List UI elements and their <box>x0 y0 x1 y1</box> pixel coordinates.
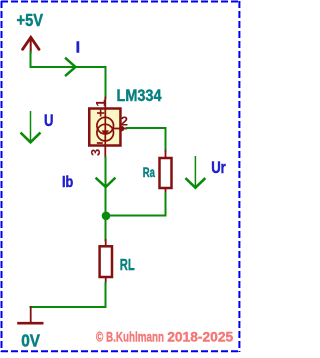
wire pin3 down through node to RL <box>105 158 107 241</box>
svg-text:0V: 0V <box>21 331 40 351</box>
+5V power symbol <box>23 37 39 52</box>
svg-text:LM334: LM334 <box>117 87 163 105</box>
svg-text:RL: RL <box>120 257 135 274</box>
svg-text:2018-2025: 2018-2025 <box>167 329 233 345</box>
Ra top lead <box>165 151 167 159</box>
svg-text:3: 3 <box>88 149 103 156</box>
svg-text:Ib: Ib <box>62 174 73 191</box>
svg-text:1: 1 <box>93 100 108 107</box>
minus sign <box>98 142 102 144</box>
current arrow I on wire <box>66 59 76 76</box>
wire +5V to corner <box>31 52 106 67</box>
voltage arrow Ur <box>186 157 204 188</box>
wire RL to ground <box>31 283 106 307</box>
wire Ra bottom to node <box>106 194 166 216</box>
node junction dot <box>102 212 111 221</box>
pin 3 <box>104 146 106 158</box>
wire pin2 to Ra top <box>127 128 166 151</box>
op LM334 U1 box <box>89 109 120 146</box>
resistor Ra <box>160 158 172 188</box>
voltage arrow U <box>22 112 40 143</box>
pin 2 <box>114 126 127 131</box>
border frame <box>1 1 240 352</box>
plus sign <box>98 110 104 115</box>
svg-text:I: I <box>76 40 80 57</box>
Ra bottom lead <box>165 188 167 194</box>
svg-text:2: 2 <box>121 114 128 129</box>
wire corner down to LM334 pin 1 <box>105 67 107 98</box>
ground 0V symbol <box>19 307 43 323</box>
svg-text:Ra: Ra <box>143 165 156 180</box>
current source symbol (two circles) <box>97 108 114 146</box>
resistor RL <box>100 246 112 277</box>
RL bottom lead <box>105 278 107 284</box>
RL top lead <box>105 240 107 247</box>
current arrow Ib on wire <box>97 179 115 188</box>
svg-text:© B.Kuhlmann: © B.Kuhlmann <box>96 329 164 345</box>
svg-text:Ur: Ur <box>211 158 226 177</box>
pin 1 <box>104 98 106 109</box>
svg-text:+5V: +5V <box>17 10 44 30</box>
svg-text:U: U <box>44 111 53 130</box>
arrowhead inside source <box>101 130 109 135</box>
